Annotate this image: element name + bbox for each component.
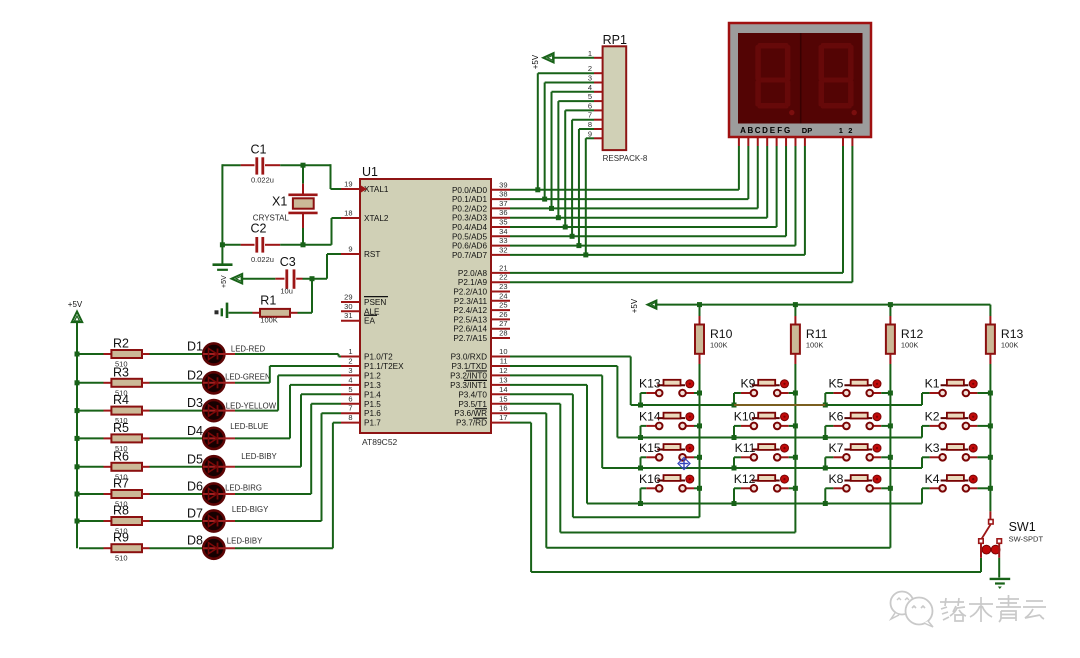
key K7: [828, 441, 881, 461]
svg-text:5: 5: [348, 385, 352, 394]
svg-text:P2.6/A14: P2.6/A14: [453, 325, 487, 334]
svg-text:39: 39: [499, 180, 507, 189]
svg-text:2: 2: [588, 64, 592, 73]
wire K11 right pin to column: [789, 456, 796, 458]
pin 27 P2.6/A14: [453, 319, 510, 334]
wire K4 right pin to column: [977, 487, 990, 489]
junction XTAL1 node: [301, 163, 306, 168]
wire display segment DP to P0.7 bus: [804, 137, 806, 255]
wire RP1 pin6 to P0.4 bus: [565, 110, 594, 227]
junction column: [793, 486, 798, 491]
pin 19 XTAL1: [341, 180, 389, 195]
wire K14 right pin to column: [694, 425, 700, 427]
pin 6 RP1: [588, 101, 603, 110]
pin 5 RP1: [588, 92, 603, 101]
junction LED rail: [75, 380, 80, 385]
pin 24 P2.3/A11: [454, 291, 510, 306]
resistor R6: [79, 449, 150, 481]
svg-text:9: 9: [588, 129, 592, 138]
junction column: [793, 391, 798, 396]
svg-text:P0.0/AD0: P0.0/AD0: [452, 186, 487, 195]
svg-text:DP: DP: [802, 126, 812, 135]
svg-text:R12: R12: [901, 327, 924, 341]
junction row: [638, 501, 643, 506]
svg-text:R1: R1: [260, 294, 276, 308]
svg-text:36: 36: [499, 208, 507, 217]
switch SW1: [979, 511, 1044, 557]
wire P3.3 to keypad row 4: [510, 385, 587, 504]
wire K4 left pin to row: [922, 488, 930, 503]
svg-text:3: 3: [588, 74, 592, 83]
svg-text:2: 2: [348, 356, 352, 365]
svg-text:14: 14: [499, 385, 507, 394]
pin 8 RP1: [588, 120, 603, 129]
svg-text:SW-SPDT: SW-SPDT: [1009, 535, 1044, 544]
wire K13 left pin to row: [641, 393, 647, 405]
svg-text:K12: K12: [734, 472, 756, 486]
wire K2 left pin to row: [922, 426, 930, 438]
svg-text:R7: R7: [113, 477, 129, 491]
svg-text:P0.7/AD7: P0.7/AD7: [452, 251, 487, 260]
pin 30 ALE: [341, 302, 380, 317]
wire K16 left pin to row: [641, 488, 647, 503]
junction keypad rail: [697, 302, 702, 307]
key K15: [639, 441, 694, 461]
svg-text:26: 26: [499, 310, 507, 319]
wire P3.4 to keypad column 1: [510, 394, 700, 517]
wire keypad row 1: [631, 404, 922, 406]
key K11: [735, 441, 789, 461]
wire P2.1 bus: [510, 281, 852, 283]
svg-text:LED-BLUE: LED-BLUE: [230, 422, 268, 431]
microcontroller U1 AT89C52: [360, 165, 491, 447]
junction LED rail: [75, 464, 80, 469]
pin 31 EA: [341, 311, 377, 326]
svg-text:K11: K11: [735, 441, 756, 455]
svg-text:28: 28: [499, 329, 507, 338]
svg-text:R4: R4: [113, 393, 129, 407]
svg-text:D2: D2: [187, 368, 203, 382]
wire K7 left pin to row: [825, 457, 833, 468]
svg-text:1: 1: [588, 49, 592, 58]
svg-text:21: 21: [499, 263, 507, 272]
wire display segment A to P0.0 bus: [738, 137, 740, 190]
pin 34 P0.5/AD5: [452, 227, 510, 242]
wire R5 to D4: [150, 437, 204, 439]
svg-text:100K: 100K: [260, 316, 278, 325]
junction row: [638, 435, 643, 440]
resistor R2: [79, 337, 150, 369]
wire P0.5 bus: [510, 235, 786, 237]
wire keypad column 4: [989, 364, 991, 511]
svg-text:P2.4/A12: P2.4/A12: [453, 306, 487, 315]
key K3: [925, 441, 978, 461]
wire C2 right to XTAL2 node: [280, 218, 341, 245]
wire K8 left pin to row: [825, 488, 833, 503]
wire RP1 pin5 to P0.3 bus: [558, 101, 594, 218]
svg-text:+5V: +5V: [68, 300, 83, 309]
svg-text:4: 4: [348, 375, 352, 384]
pin 15 P3.5/T1: [458, 394, 510, 409]
wire keypad row 2: [617, 437, 922, 439]
wire K9 left pin to row: [734, 393, 741, 405]
watermark text: [940, 595, 1046, 622]
svg-text:8: 8: [588, 120, 592, 129]
svg-text:P2.5/A13: P2.5/A13: [453, 315, 487, 324]
svg-text:7: 7: [348, 404, 352, 413]
junction column: [697, 455, 702, 460]
svg-text:1: 1: [839, 126, 843, 135]
svg-text:31: 31: [344, 311, 352, 320]
wire P0.0 bus: [510, 189, 739, 191]
svg-text:100K: 100K: [806, 341, 824, 350]
svg-text:6: 6: [588, 101, 592, 110]
pin arrow XTAL1: [361, 186, 367, 193]
pin 8 P1.7: [341, 413, 381, 428]
wire D7 to P1.6: [235, 413, 341, 521]
svg-text:P1.4: P1.4: [364, 390, 381, 399]
svg-text:0.022u: 0.022u: [251, 176, 274, 185]
wire RP1 pin2 to P0.0 bus: [538, 73, 594, 190]
pin 16 P3.6/WR: [454, 404, 510, 419]
svg-text:A: A: [740, 126, 746, 135]
pin 9 RP1: [588, 129, 603, 138]
wire R7 to D6: [150, 493, 204, 495]
svg-text:16: 16: [499, 404, 507, 413]
wire K13 right pin to column: [694, 392, 700, 394]
svg-text:P1.6: P1.6: [364, 409, 381, 418]
pin 23 P2.2/A10: [453, 282, 510, 297]
svg-text:LED-YELLOW: LED-YELLOW: [226, 402, 277, 411]
pin 1 RP1: [588, 49, 603, 58]
junction column: [793, 455, 798, 460]
wire P0.7 bus: [510, 254, 805, 256]
pin 2 RP1: [588, 64, 603, 73]
svg-text:D3: D3: [187, 396, 203, 410]
pin 29 PSEN: [341, 293, 388, 308]
junction P0 bus: [556, 215, 561, 220]
junction row: [732, 403, 737, 408]
svg-text:P2.2/A10: P2.2/A10: [453, 288, 487, 297]
svg-text:D6: D6: [187, 480, 203, 494]
wire display pin 1 to P2.0: [842, 137, 844, 273]
svg-text:32: 32: [499, 245, 507, 254]
crystal X1: [253, 165, 318, 245]
wire RP1 pin4 to P0.2 bus: [552, 92, 594, 209]
wire K9 right pin to column: [789, 392, 796, 394]
svg-text:K15: K15: [639, 441, 661, 455]
key K12: [734, 472, 789, 492]
pin 38 P0.1/AD1: [452, 190, 510, 205]
wire P3.1 to keypad row 2: [510, 366, 617, 438]
pin 36 P0.3/AD3: [452, 208, 510, 223]
resistor R11: [791, 305, 828, 364]
svg-text:100K: 100K: [710, 341, 728, 350]
wire P3.2 to keypad row 3: [510, 375, 602, 468]
svg-text:F: F: [777, 126, 782, 135]
junction row: [732, 466, 737, 471]
svg-text:LED-GREEN: LED-GREEN: [225, 373, 271, 382]
wire SW1 right to ground: [998, 558, 1000, 578]
svg-text:PSEN: PSEN: [364, 298, 386, 307]
svg-text:K13: K13: [639, 377, 661, 391]
wire K14 left pin to row: [641, 426, 647, 438]
wire display segment C to P0.2 bus: [757, 137, 759, 208]
wire display segment F to P0.5 bus: [785, 137, 787, 236]
wire P0.1 bus: [510, 198, 748, 200]
svg-text:K8: K8: [828, 472, 843, 486]
wire K15 left pin to row: [641, 457, 647, 468]
svg-text:P3.2/INT0: P3.2/INT0: [450, 371, 487, 380]
svg-text:19: 19: [344, 180, 352, 189]
svg-text:1: 1: [348, 347, 352, 356]
junction column: [888, 455, 893, 460]
wire K15 right pin to column: [694, 456, 700, 458]
wire K3 right pin to column: [977, 456, 990, 458]
wire P3.6 to keypad column 3: [510, 413, 890, 548]
svg-text:15: 15: [499, 394, 507, 403]
LED D1: [187, 340, 265, 365]
wire C1 left to ground rail: [222, 164, 240, 166]
svg-text:8: 8: [348, 413, 352, 422]
svg-text:9: 9: [348, 245, 352, 254]
svg-text:R10: R10: [710, 327, 733, 341]
svg-text:P2.1/A9: P2.1/A9: [458, 278, 488, 287]
wire P0.2 bus: [510, 207, 758, 209]
wire RP1 pin7 to P0.5 bus: [572, 120, 594, 237]
svg-text:25: 25: [499, 301, 507, 310]
resistor R3: [79, 365, 150, 397]
pin 12 P3.2/INT0: [450, 366, 510, 381]
LED D7: [187, 505, 269, 532]
wire K8 right pin to column: [881, 487, 890, 489]
svg-text:K7: K7: [828, 441, 843, 455]
svg-text:510: 510: [115, 554, 128, 563]
junction row: [823, 435, 828, 440]
junction column: [888, 423, 893, 428]
svg-text:P2.3/A11: P2.3/A11: [454, 297, 488, 306]
svg-text:11: 11: [500, 356, 508, 365]
key K8: [828, 472, 881, 492]
pin 6 P1.5: [341, 394, 381, 409]
pin 21 P2.0/A8: [458, 263, 510, 278]
svg-text:7: 7: [588, 111, 592, 120]
display pin labels: [740, 126, 852, 135]
pin 14 P3.4/T0: [458, 385, 510, 400]
svg-text:35: 35: [499, 218, 507, 227]
junction LED rail: [75, 408, 80, 413]
svg-text:10u: 10u: [280, 287, 293, 296]
wire D5 to P1.4: [235, 394, 341, 467]
svg-text:P3.6/WR: P3.6/WR: [454, 409, 487, 418]
svg-text:B: B: [747, 126, 753, 135]
junction P0 bus: [542, 197, 547, 202]
wire RP1 pin3 to P0.1 bus: [545, 83, 594, 200]
wire D3 to P1.2: [235, 375, 341, 410]
svg-text:17: 17: [499, 413, 507, 422]
wire R3 to D2: [150, 382, 204, 384]
resistor R9: [79, 531, 150, 563]
svg-text:+5V: +5V: [221, 275, 228, 288]
svg-text:U1: U1: [362, 165, 378, 179]
junction column: [888, 486, 893, 491]
wire keypad row 3: [602, 467, 922, 469]
wire K10 right pin to column: [789, 425, 796, 427]
key K5: [828, 377, 881, 397]
power +5V LED rail terminal: [68, 300, 83, 322]
svg-text:R8: R8: [113, 504, 129, 518]
svg-text:P3.1/TXD: P3.1/TXD: [452, 362, 488, 371]
resistor R4: [79, 393, 150, 425]
svg-text:E: E: [770, 126, 776, 135]
display digit: [819, 43, 857, 115]
key K13: [639, 377, 694, 397]
pin 35 P0.4/AD4: [452, 218, 510, 233]
junction C3-R1 node: [310, 276, 315, 281]
resistor R5: [79, 421, 150, 453]
svg-text:RP1: RP1: [603, 33, 627, 47]
battery cell terminal at R1 left: [215, 303, 253, 318]
svg-text:P0.1/AD1: P0.1/AD1: [452, 195, 487, 204]
svg-text:R2: R2: [113, 337, 129, 351]
svg-text:RST: RST: [364, 250, 380, 259]
svg-text:R6: R6: [113, 449, 129, 463]
7-segment display DS1: [729, 23, 871, 137]
LED D4: [187, 422, 268, 449]
svg-text:100K: 100K: [901, 341, 919, 350]
svg-text:+5V: +5V: [531, 54, 540, 69]
power +5V keypad rail terminal: [630, 298, 656, 313]
wire P3.7 to SW1: [510, 423, 981, 572]
wire K7 right pin to column: [881, 456, 890, 458]
svg-text:6: 6: [348, 394, 352, 403]
wire D1 to P1.0: [235, 354, 341, 357]
svg-text:R5: R5: [113, 421, 129, 435]
junction P0 bus: [583, 252, 588, 257]
pin 7 P1.6: [341, 404, 381, 419]
junction P0 bus: [570, 234, 575, 239]
resistor R1: [253, 294, 298, 325]
svg-text:12: 12: [499, 366, 507, 375]
svg-text:SW1: SW1: [1009, 520, 1036, 534]
LED D6: [187, 480, 262, 505]
ground at SW1: [990, 579, 1011, 589]
svg-text:D: D: [762, 126, 768, 135]
svg-text:LED-BIGY: LED-BIGY: [232, 505, 269, 514]
wire display segment D to P0.3 bus: [766, 137, 768, 218]
LED D3: [187, 396, 277, 421]
junction row: [732, 435, 737, 440]
junction column: [793, 423, 798, 428]
svg-text:K2: K2: [925, 409, 940, 423]
svg-text:R9: R9: [113, 531, 129, 545]
junction keypad rail: [888, 302, 893, 307]
pin 17 P3.7/RD: [456, 413, 510, 428]
svg-text:LED-BIBY: LED-BIBY: [227, 537, 263, 546]
LED D5: [187, 452, 278, 477]
wire D8 to P1.7: [235, 423, 341, 549]
key K4: [925, 472, 978, 492]
junction column: [697, 391, 702, 396]
junction P0 bus: [576, 243, 581, 248]
resistor pack RP1: [603, 33, 648, 163]
svg-text:P1.1/T2EX: P1.1/T2EX: [364, 362, 404, 371]
svg-text:P1.7: P1.7: [364, 419, 381, 428]
pin 39 P0.0/AD0: [452, 180, 510, 195]
junction P0 bus: [549, 206, 554, 211]
svg-text:K16: K16: [639, 472, 661, 486]
junction P0 bus: [535, 187, 540, 192]
svg-text:0.022u: 0.022u: [251, 255, 274, 264]
wire R9 to D8: [150, 547, 204, 549]
key K16: [639, 472, 694, 492]
svg-text:D8: D8: [187, 534, 203, 548]
key K1: [925, 377, 978, 397]
svg-text:30: 30: [344, 302, 352, 311]
svg-text:C: C: [755, 126, 761, 135]
svg-text:K3: K3: [925, 441, 940, 455]
svg-text:D7: D7: [187, 507, 203, 521]
junction column: [988, 423, 993, 428]
svg-text:13: 13: [499, 375, 507, 384]
wire keypad row 4: [587, 503, 922, 505]
display digit: [755, 43, 794, 115]
wire R6 to D5: [150, 466, 204, 468]
svg-text:29: 29: [344, 293, 352, 302]
wire K11 left pin to row: [734, 457, 741, 468]
wire C1 right to XTAL1 node: [280, 164, 341, 189]
svg-text:K4: K4: [925, 472, 940, 486]
svg-text:P1.5: P1.5: [364, 400, 381, 409]
svg-text:XTAL1: XTAL1: [364, 185, 389, 194]
wire P0.3 bus: [510, 217, 767, 219]
wire R2 to D1: [150, 353, 204, 355]
resistor R10: [695, 305, 733, 364]
wire keypad column 3: [889, 364, 891, 548]
wire D6 to P1.5: [235, 404, 341, 494]
junction LED rail: [75, 352, 80, 357]
wire R4 to D3: [150, 410, 204, 412]
LED D2: [187, 368, 271, 393]
wire K5 right pin to column: [881, 392, 890, 394]
svg-text:P3.7/RD: P3.7/RD: [456, 419, 487, 428]
svg-text:4: 4: [588, 83, 592, 92]
wire display segment B to P0.1 bus: [747, 137, 749, 199]
junction column: [988, 455, 993, 460]
key K9: [740, 377, 788, 397]
svg-text:K14: K14: [639, 409, 661, 423]
junction C2 left: [220, 242, 225, 247]
pin 1 P1.0/T2: [341, 347, 393, 362]
power terminal +5V arrow at C3: [232, 274, 276, 284]
pin 26 P2.5/A13: [453, 310, 510, 325]
capacitor C3: [275, 255, 302, 296]
wire P0.6 bus: [510, 245, 795, 247]
wire RP1 pin9 to P0.7 bus: [586, 138, 594, 255]
svg-text:P3.4/T0: P3.4/T0: [458, 390, 487, 399]
key K14: [639, 409, 694, 429]
svg-text:LED-RED: LED-RED: [231, 345, 266, 354]
svg-text:D1: D1: [187, 340, 203, 354]
junction row: [823, 501, 828, 506]
pin 32 P0.7/AD7: [452, 245, 510, 260]
svg-text:K10: K10: [734, 409, 756, 423]
wire display pin 2 to P2.1: [851, 137, 853, 282]
svg-text:P0.6/AD6: P0.6/AD6: [452, 242, 487, 251]
svg-text:10: 10: [499, 347, 507, 356]
pin 22 P2.1/A9: [458, 273, 510, 288]
wire R8 to D7: [150, 520, 204, 522]
